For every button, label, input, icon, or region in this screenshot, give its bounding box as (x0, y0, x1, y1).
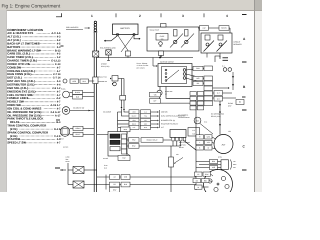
fusible link box 2 (73, 181, 196, 188)
bus fusible link (93, 51, 99, 57)
comb label box (188, 128, 200, 137)
svg-text:BLK/W: BLK/W (75, 91, 81, 94)
svg-text:1: 1 (91, 14, 93, 18)
wire color label boxes (190, 92, 204, 110)
svg-text:GRD HARNESS: GRD HARNESS (66, 26, 79, 29)
ground plug P2 (61, 87, 94, 99)
battery B1 (113, 24, 139, 36)
svg-text:B/W: B/W (196, 67, 200, 70)
fuse stack label (66, 155, 70, 163)
block label boxes (127, 138, 172, 149)
svg-text:B/L: B/L (197, 82, 200, 85)
lower branch arrow (114, 131, 128, 134)
switch output wires (186, 68, 204, 70)
fuse block (156, 34, 168, 47)
strip output wires (213, 87, 229, 89)
breaker output wires (206, 53, 208, 58)
svg-text:A12: A12 (202, 27, 205, 30)
splice box (236, 100, 244, 105)
bottom splice boxes (106, 175, 130, 193)
ignition coil (60, 126, 94, 140)
svg-text:3: 3 (182, 14, 184, 18)
svg-text:A-17: A-17 (55, 114, 61, 117)
svg-text:CIRCUIT: CIRCUIT (234, 41, 241, 44)
harness direction arrows (232, 72, 234, 90)
switch feed wire (166, 87, 190, 99)
svg-text:B/W: B/W (212, 160, 216, 163)
long wire to starter (97, 176, 196, 178)
grid row letters right margin (242, 14, 247, 16)
start signal stub (153, 58, 158, 67)
svg-text:4: 4 (226, 14, 228, 18)
battery positive cable (104, 36, 118, 41)
svg-text:BLK/W: BLK/W (221, 27, 227, 30)
svg-text:Fig 1: Engine Compartment: Fig 1: Engine Compartment (2, 4, 61, 10)
splice label box (219, 26, 229, 31)
fuse feed wire (60, 163, 73, 185)
block bottom label (103, 154, 130, 161)
svg-text:B/W: B/W (132, 145, 136, 148)
ignition switch assembly box (147, 24, 199, 52)
alternator lead labels (196, 135, 215, 150)
bulkhead connector block (108, 128, 127, 156)
svg-text:G/W: G/W (113, 189, 117, 192)
comb wires (171, 141, 196, 192)
svg-text:B6: B6 (239, 101, 241, 104)
alternator A1 (214, 128, 233, 154)
branch rows to computers (129, 110, 186, 130)
title bar (0, 0, 262, 10)
wire bus to block (97, 134, 108, 136)
loop terminal bars (223, 58, 229, 61)
svg-text:BREAKER: BREAKER (234, 43, 243, 46)
svg-text:B3: B3 (113, 183, 115, 186)
svg-text:ALT: ALT (222, 143, 227, 146)
svg-text:Y/W: Y/W (207, 141, 211, 144)
svg-text:B3: B3 (196, 179, 198, 182)
bracket (159, 110, 161, 128)
connector strip pin label boxes (193, 66, 203, 85)
svg-text:SPEED LT SW: SPEED LT SW (7, 141, 26, 145)
battery ground cable connector (94, 21, 98, 32)
ignition contacts (170, 30, 194, 48)
vertical harness wire (219, 101, 221, 128)
grid corner mark (56, 13, 62, 17)
horn lead label boxes (150, 92, 161, 103)
top connector boxes right (214, 91, 223, 102)
fuse and coil unit (98, 76, 118, 86)
svg-text:BATTERY: BATTERY (120, 27, 130, 30)
relay feed connector (169, 157, 183, 167)
svg-text:W/BLK: W/BLK (75, 127, 81, 130)
battery cable cross wires (118, 36, 128, 51)
ignition coil connector comb (170, 130, 186, 141)
bus inline connector (93, 77, 98, 84)
starter lead labels (193, 172, 213, 189)
wire battery to main feed (127, 51, 129, 58)
svg-text:A2: A2 (113, 176, 115, 179)
wire down to breaker (229, 28, 231, 33)
right margin strip (255, 11, 263, 192)
branch elbows (118, 109, 130, 128)
component location list rows (7, 31, 61, 144)
spark control computer leads (196, 159, 221, 169)
wire unit to harness (118, 78, 124, 80)
battery negative cable (134, 36, 139, 39)
svg-text:4-7: 4-7 (57, 142, 61, 145)
svg-text:B-4: B-4 (56, 121, 61, 124)
wire to circuit breaker (198, 27, 230, 29)
spark control connector (221, 160, 237, 170)
main ground bus (twin vertical lines) (93, 33, 95, 193)
splice label box (200, 26, 209, 31)
horn switch node B3 (157, 87, 190, 104)
grid row marks left margin (61, 45, 64, 47)
svg-text:C-3: C-3 (217, 92, 220, 95)
double splice C-1 (222, 64, 232, 71)
wire box bottom exit (159, 51, 164, 58)
harness pair vertical (120, 79, 126, 111)
wire node to alternator (196, 100, 213, 190)
node B3 bottom (194, 117, 207, 124)
fusible link F1 (106, 50, 111, 61)
ground plug P1 (63, 79, 94, 83)
harness tag box (121, 127, 131, 132)
inline connector (126, 51, 131, 56)
svg-text:A2: A2 (197, 173, 199, 176)
svg-text:D-4 6: D-4 6 (54, 128, 61, 131)
svg-text:B12: B12 (122, 157, 125, 160)
starter motor M1 (204, 170, 233, 199)
left margin strip (0, 10, 7, 192)
connector strip C1 (204, 66, 213, 106)
ignition switch S2 (158, 60, 192, 86)
svg-text:B3: B3 (196, 120, 198, 123)
svg-text:L: L (199, 141, 200, 144)
svg-text:C-9: C-9 (217, 97, 220, 100)
margin dash (242, 96, 246, 98)
svg-text:R/W: R/W (132, 139, 136, 142)
a/c delay switch (62, 107, 94, 115)
main feed wire (97, 57, 193, 59)
fusible link box 1 (73, 167, 97, 174)
circuit breaker box (201, 33, 232, 53)
jumper loop (215, 56, 220, 62)
svg-text:B/W: B/W (205, 173, 209, 176)
svg-text:2: 2 (139, 14, 141, 18)
